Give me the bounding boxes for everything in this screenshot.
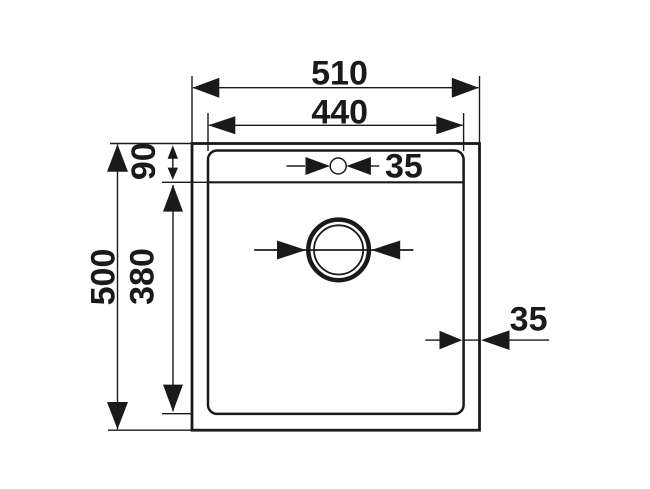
drain outer circle <box>308 220 369 281</box>
extension line 510 left <box>191 76 193 144</box>
arrow right-35 left (points right at bowl edge) <box>440 331 463 350</box>
tap-hole circle <box>330 158 346 174</box>
svg-text:380: 380 <box>124 248 162 305</box>
svg-text:90: 90 <box>125 142 163 180</box>
arrow right-35 right (points left at rim edge) <box>481 330 510 350</box>
drain inner circle <box>314 225 363 274</box>
bowl rounded rectangle <box>208 151 464 414</box>
dimension line 440 <box>209 124 463 126</box>
svg-text:510: 510 <box>311 55 368 93</box>
tap 35 leader line right <box>370 165 379 167</box>
extension line 440 left <box>207 113 209 151</box>
tap 35 leader line left <box>287 165 306 167</box>
arrow 500 bottom <box>107 402 128 429</box>
dimension line 380 <box>172 185 174 411</box>
svg-text:440: 440 <box>311 93 368 131</box>
right 35 connecting line <box>463 339 480 341</box>
svg-text:35: 35 <box>510 301 548 339</box>
svg-text:500: 500 <box>84 249 122 306</box>
arrow drain right (points left) <box>371 241 400 260</box>
arrow 440 right <box>436 116 463 134</box>
arrow 500 top <box>107 144 128 171</box>
arrow tap-35 left (points right at circle) <box>306 157 331 175</box>
arrow 440 left <box>208 116 235 134</box>
extension line 440 right <box>463 113 465 151</box>
arrow drain left (points right) <box>277 241 306 260</box>
drain centre line <box>254 249 413 251</box>
svg-text:35: 35 <box>385 148 423 186</box>
bowl-bottom extension line (left) <box>162 413 192 415</box>
arrow tap-35 right (points left at circle) <box>346 157 371 175</box>
top extension line at rim top (left, for 500 and 90) <box>110 143 192 145</box>
arrow 380 bottom <box>163 385 183 412</box>
arrow 510 right <box>452 78 479 98</box>
right 35 leader line left segment <box>425 339 441 341</box>
bottom extension line at rim bottom (left, for 500) <box>108 429 192 431</box>
dimension line 510 <box>193 87 479 89</box>
arrow 90 down (small) <box>168 168 178 180</box>
arrow 510 left <box>192 78 219 98</box>
arrow 90 up (small) <box>168 145 178 159</box>
right 35 leader line right segment <box>507 339 549 341</box>
arrow 380 top <box>163 185 183 212</box>
dimension line 90 (short connector) <box>172 158 174 168</box>
sink outer rim rectangle <box>192 144 480 431</box>
extension line 510 right <box>479 76 481 144</box>
step (ledge) line <box>208 181 464 183</box>
step extension line (left) <box>162 181 208 183</box>
dimension line 500 <box>117 145 119 430</box>
